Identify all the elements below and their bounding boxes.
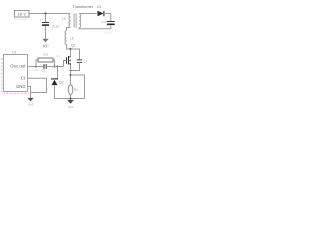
node drain junction — [69, 48, 71, 50]
svg-text:DC source: DC source — [14, 17, 28, 21]
wire gate node to transistor — [58, 66, 64, 68]
capacitor C4 snubber — [77, 60, 88, 64]
wire Lb bottom to drain node — [67, 45, 71, 50]
diode D2 — [51, 79, 64, 85]
wire drain — [70, 49, 72, 57]
svg-text:U1: U1 — [12, 51, 17, 55]
ground oscillator — [27, 98, 34, 107]
capacitor C1 — [40, 19, 60, 29]
node R1 left — [35, 66, 37, 68]
node ground junction — [70, 98, 72, 100]
wire drain to snubber — [71, 49, 80, 60]
svg-text:+C2: +C2 — [101, 20, 107, 24]
svg-text:Gs: Gs — [56, 54, 60, 58]
svg-text:100: 100 — [43, 53, 48, 57]
capacitor C3 — [36, 64, 58, 73]
op-amp U1 oscillator box — [4, 51, 28, 92]
svg-text:18 V: 18 V — [18, 13, 27, 17]
svg-text:10 µF: 10 µF — [52, 25, 60, 29]
svg-text:C3: C3 — [42, 69, 46, 73]
wire C1 top — [45, 14, 47, 23]
node gate junction — [57, 66, 59, 68]
svg-text:Ct: Ct — [21, 76, 26, 81]
svg-text:Transformer: Transformer — [73, 5, 94, 9]
wire primary tap jog — [67, 28, 71, 31]
node junction top rail — [44, 12, 46, 14]
ground main — [67, 100, 74, 109]
wire pink highlight box — [2, 58, 29, 93]
svg-text:Q1: Q1 — [71, 43, 76, 47]
svg-text:GND: GND — [16, 84, 26, 89]
inductor Lb (lower primary winding) — [65, 31, 74, 45]
capacitor C2 — [101, 20, 115, 35]
wire source down — [70, 65, 72, 85]
transformer secondary winding — [79, 14, 81, 28]
wire snubber bottom to source — [71, 62, 80, 70]
wire GND pin — [28, 87, 31, 98]
diode D1 — [79, 5, 111, 16]
svg-text:+: + — [40, 19, 42, 23]
source box Vin — [14, 11, 29, 22]
svg-text:C4: C4 — [84, 60, 88, 64]
ground under C1 — [42, 39, 49, 48]
svg-text:100 µF: 100 µF — [104, 31, 113, 35]
node junction right loop — [70, 74, 72, 76]
wire D2 to ground rail — [55, 85, 71, 98]
node R1 right — [54, 66, 56, 68]
wire top rail — [29, 13, 71, 15]
wire D1 to C2 — [110, 14, 112, 22]
svg-text:D1: D1 — [97, 5, 101, 9]
wire right loop — [71, 75, 85, 99]
resistor R1 — [36, 44, 55, 66]
wire Rs to ground — [70, 95, 72, 100]
resistor Rs — [68, 85, 78, 95]
svg-text:Rs: Rs — [74, 87, 78, 91]
wire bottom rail — [71, 98, 85, 100]
svg-text:R1: R1 — [43, 44, 47, 48]
svg-text:La: La — [62, 17, 66, 21]
node source junction — [70, 70, 72, 72]
wire gate line from oscillator — [28, 66, 37, 68]
wire D2 branch — [57, 67, 59, 79]
svg-text:D2: D2 — [59, 80, 64, 84]
svg-text:Osc out: Osc out — [10, 64, 26, 69]
transformer core — [73, 14, 75, 28]
svg-text:GND: GND — [68, 105, 74, 109]
svg-text:f = 1 kHz: f = 1 kHz — [28, 68, 39, 72]
transistor Q1 — [64, 43, 76, 66]
transformer primary winding La — [62, 14, 71, 28]
svg-text:Lb: Lb — [70, 37, 74, 41]
wire Ct pin — [28, 78, 47, 92]
wire secondary return — [79, 25, 111, 29]
wire C1 bottom — [45, 26, 47, 39]
svg-text:GND: GND — [28, 102, 34, 106]
